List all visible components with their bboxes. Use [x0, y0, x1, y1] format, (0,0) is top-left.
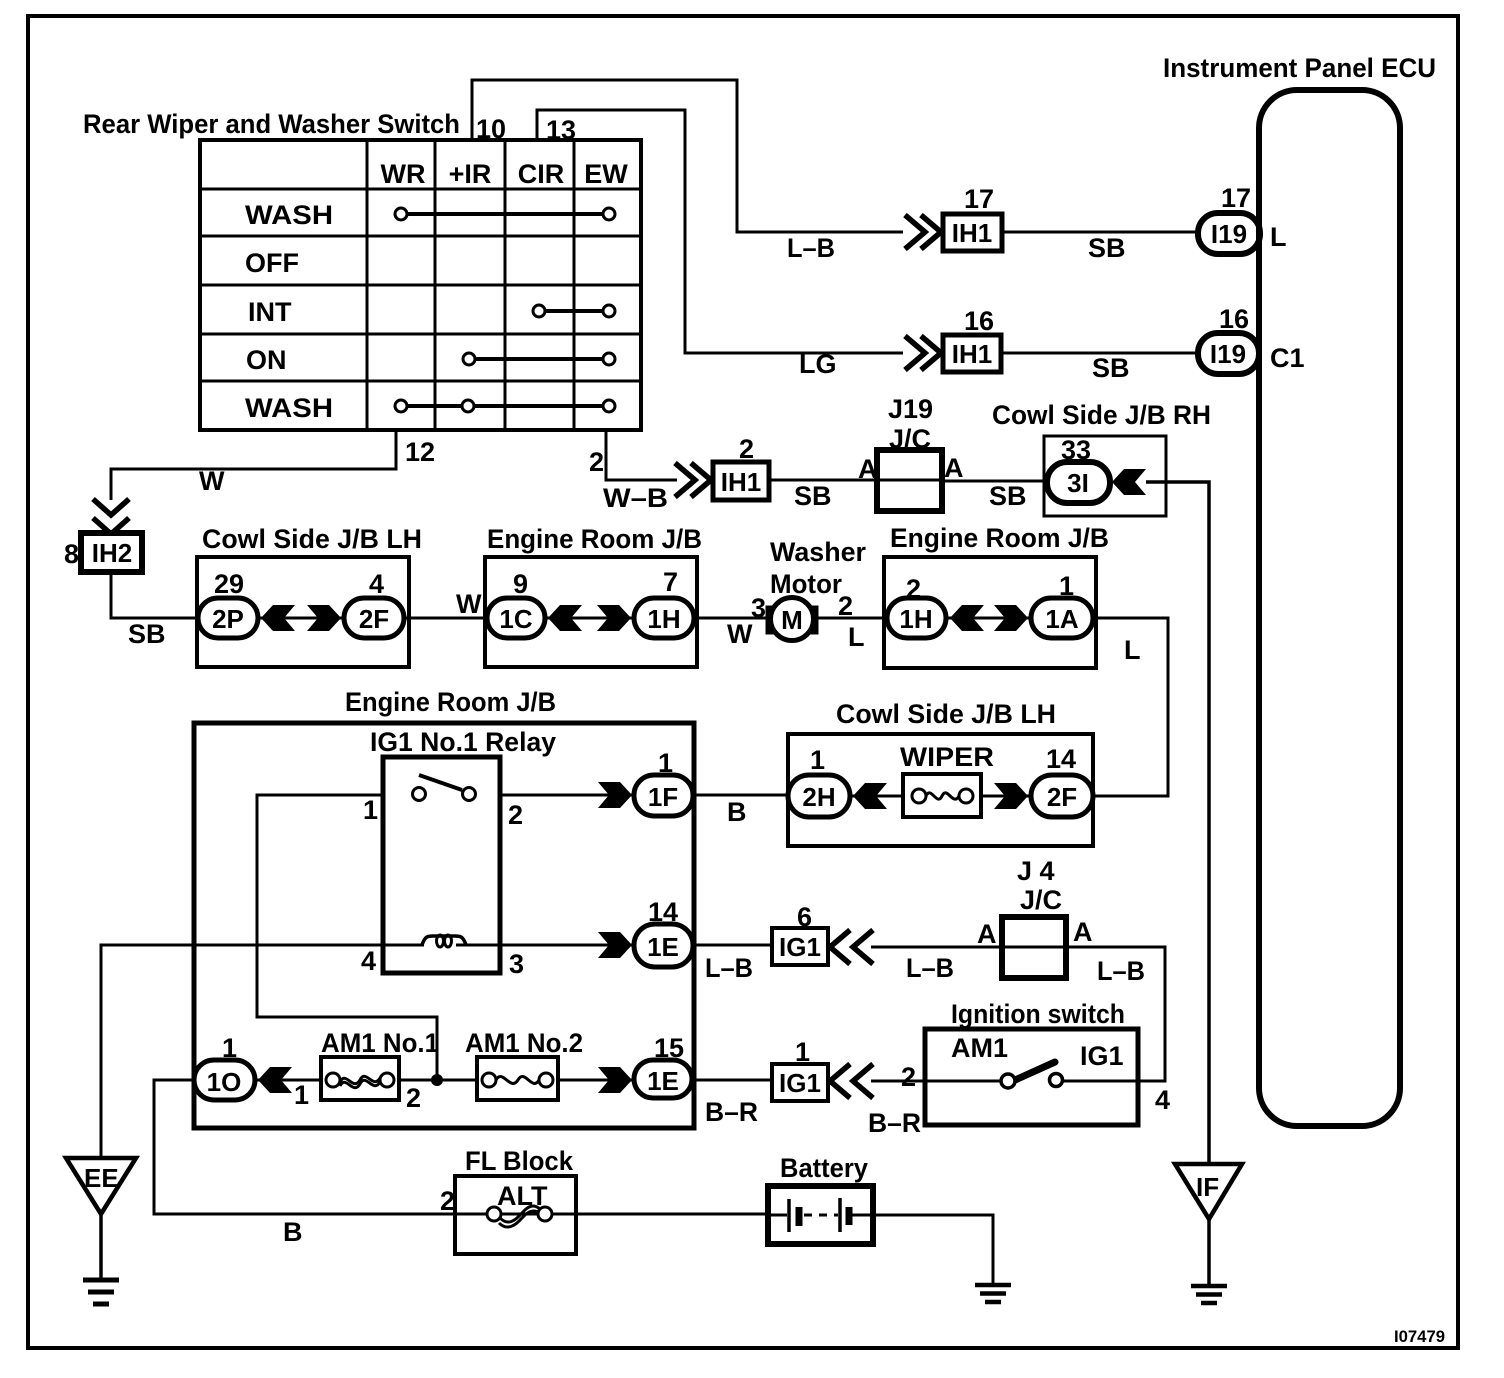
wire 1E14 to IG1(6): [693, 944, 772, 947]
wire 1E15 to IG1(1): [692, 1079, 772, 1082]
connector I19 pin17: [1198, 183, 1287, 254]
solid chevron at 3I: [1112, 469, 1146, 495]
wire 1C to 1H: [545, 617, 634, 620]
contact row WASH(top): [395, 208, 615, 220]
chevron at 2F(14): [994, 783, 1028, 809]
svg-text:2P: 2P: [212, 604, 244, 634]
wire fuse to 2F: [981, 795, 1031, 798]
svg-text:WASH: WASH: [245, 200, 333, 230]
wire 1O to fuse AM1 No.1: [255, 1079, 321, 1082]
wire 1H to washer motor: [694, 617, 766, 620]
svg-text:1E: 1E: [647, 1066, 679, 1096]
svg-text:J19: J19: [888, 394, 933, 424]
wire relay pin2 to 1F: [500, 794, 636, 797]
connector IH1 pin2: [713, 434, 769, 500]
open arrow before IH1(2): [675, 463, 711, 497]
relay switch contacts: [413, 775, 476, 801]
svg-text:FL Block: FL Block: [465, 1146, 574, 1176]
wire pin13 to IH1(16): [537, 110, 903, 353]
chevron at 1E(14): [598, 932, 632, 958]
connector 2P pin29: [198, 569, 258, 638]
wire IF to ground: [1207, 1219, 1211, 1285]
junction J4 J/C: [977, 856, 1093, 978]
svg-text:IG1 No.1 Relay: IG1 No.1 Relay: [370, 727, 556, 757]
svg-text:Cowl Side J/B LH: Cowl Side J/B LH: [836, 699, 1056, 729]
svg-text:L–B: L–B: [787, 233, 835, 263]
svg-text:ON: ON: [246, 345, 287, 375]
wire fuse2 to 1E(15): [558, 1079, 636, 1082]
junction dot: [431, 1074, 443, 1086]
connector IH2 pin8: [64, 533, 142, 572]
svg-text:CIR: CIR: [518, 159, 565, 189]
wire SB to I19(16): [1001, 352, 1198, 355]
wire through J4: [1002, 946, 1066, 949]
svg-text:Rear Wiper and Washer Switch: Rear Wiper and Washer Switch: [83, 109, 460, 139]
svg-text:IG1: IG1: [779, 932, 821, 962]
svg-text:1E: 1E: [647, 932, 679, 962]
svg-text:Engine Room J/B: Engine Room J/B: [345, 687, 556, 717]
battery BAT1: [768, 1186, 873, 1244]
svg-text:Engine Room J/B: Engine Room J/B: [890, 523, 1109, 553]
svg-text:WIPER: WIPER: [900, 742, 994, 772]
svg-text:2F: 2F: [1047, 782, 1077, 812]
svg-text:Cowl Side J/B RH: Cowl Side J/B RH: [992, 400, 1211, 430]
svg-text:Cowl Side J/B LH: Cowl Side J/B LH: [202, 524, 422, 554]
svg-text:B–R: B–R: [705, 1097, 758, 1127]
connector 1H pin2: [887, 574, 946, 638]
wire IG1(6) to J4: [871, 946, 1002, 949]
svg-text:4: 4: [1155, 1085, 1170, 1115]
svg-text:SB: SB: [1092, 353, 1130, 383]
svg-text:1A: 1A: [1045, 604, 1078, 634]
svg-text:3I: 3I: [1067, 468, 1089, 498]
svg-text:W: W: [199, 466, 225, 496]
ignition switch contacts SW1: [1001, 1062, 1063, 1088]
svg-text:16: 16: [1219, 304, 1249, 334]
chevron at 1O: [258, 1067, 292, 1093]
connector 1H pin7: [634, 567, 694, 638]
svg-text:L–B: L–B: [906, 953, 954, 983]
chevron at 1E(15): [598, 1067, 632, 1093]
Cowl Side J/B LH box (2nd): [788, 734, 1093, 846]
svg-text:4: 4: [361, 946, 376, 976]
wire battery to ground: [873, 1215, 993, 1284]
svg-text:B: B: [283, 1217, 303, 1247]
chevrons between 2P and 2F: [261, 605, 295, 631]
svg-text:IG1: IG1: [1080, 1041, 1124, 1071]
connector 1C pin9: [487, 569, 545, 638]
connector 2F pin14: [1031, 744, 1093, 817]
svg-text:A: A: [944, 453, 964, 483]
svg-text:2: 2: [508, 800, 523, 830]
wire 2F to 1C: [404, 617, 487, 620]
svg-text:W–B: W–B: [603, 483, 668, 513]
connector 1A pin1: [1031, 571, 1093, 638]
svg-text:7: 7: [663, 567, 678, 597]
Cowl Side J/B RH box: [1044, 436, 1166, 516]
svg-text:1F: 1F: [648, 782, 678, 812]
wire SB J19 to 3I: [942, 480, 1047, 483]
connector 1E pin15: [634, 1033, 692, 1098]
svg-text:AM1 No.1: AM1 No.1: [321, 1028, 439, 1058]
connector 1F pin1: [634, 748, 693, 816]
svg-text:16: 16: [964, 306, 994, 336]
svg-text:W: W: [727, 619, 753, 649]
connector IH1 pin16: [943, 306, 1001, 372]
svg-text:OFF: OFF: [245, 248, 299, 278]
wire FL block to battery: [576, 1213, 768, 1216]
Instrument Panel ECU body: [1259, 90, 1400, 1126]
fuse AM1 No.1: [321, 1057, 399, 1100]
svg-text:EW: EW: [584, 159, 628, 189]
svg-text:2: 2: [589, 447, 604, 477]
down arrows to IH2: [93, 499, 129, 534]
svg-text:ALT: ALT: [497, 1181, 548, 1211]
svg-text:Battery: Battery: [780, 1153, 868, 1183]
wire SB to I19(17): [1002, 231, 1198, 234]
svg-text:IF: IF: [1196, 1172, 1219, 1202]
wire through J19: [877, 479, 942, 482]
svg-text:J 4: J 4: [1017, 856, 1055, 886]
svg-text:IH2: IH2: [92, 538, 132, 568]
svg-text:SB: SB: [128, 619, 166, 649]
svg-text:IG1: IG1: [779, 1068, 821, 1098]
svg-text:B: B: [727, 797, 747, 827]
svg-text:1H: 1H: [899, 604, 932, 634]
svg-text:2: 2: [440, 1186, 455, 1216]
svg-text:1H: 1H: [647, 604, 680, 634]
wire pin12 to IH2: [111, 430, 396, 500]
open arrow after IG1(1): [830, 1064, 873, 1098]
open arrow after IG1(6): [830, 930, 873, 964]
wire J4 to ignition switch pin4: [1063, 947, 1165, 1081]
chevrons between 1C and 1H: [548, 605, 582, 631]
svg-text:2: 2: [406, 1083, 421, 1113]
wire EE to ground: [99, 1214, 103, 1281]
connector I19 pin16: [1198, 304, 1305, 374]
wire IG1(1) to ignition switch: [871, 1080, 1002, 1083]
svg-text:L–B: L–B: [705, 953, 753, 983]
svg-text:SB: SB: [1088, 233, 1126, 263]
fuse WIPER: [903, 774, 981, 817]
ground at battery: [975, 1285, 1011, 1302]
svg-text:A: A: [858, 454, 878, 484]
wire fuse1 to fuse2: [399, 1079, 477, 1082]
wire 1F to 2H: [693, 794, 788, 797]
connector 1E pin14: [634, 897, 693, 967]
svg-text:12: 12: [405, 437, 435, 467]
svg-text:M: M: [781, 605, 803, 635]
chevron at 2H: [853, 783, 887, 809]
Engine Room J/B big box: [194, 723, 694, 1128]
svg-text:A: A: [977, 919, 997, 949]
connector IG1 pin6: [772, 902, 828, 965]
svg-text:L: L: [1124, 635, 1141, 665]
svg-text:L: L: [848, 622, 865, 652]
svg-text:WR: WR: [381, 159, 426, 189]
junction J19 J/C: [858, 394, 964, 511]
contact row WASH(bottom): [395, 400, 615, 412]
ground IF triangle: [1175, 1164, 1242, 1219]
relay coil: [422, 936, 466, 945]
svg-text:1: 1: [363, 795, 378, 825]
svg-text:C1: C1: [1270, 343, 1305, 373]
wire coil to 1E(14): [456, 944, 636, 947]
ground at IF: [1191, 1286, 1227, 1303]
svg-text:10: 10: [476, 114, 506, 144]
connector IG1 pin1: [772, 1037, 828, 1101]
svg-text:3: 3: [509, 949, 524, 979]
chevrons between 1H and 1A: [950, 605, 984, 631]
svg-text:1O: 1O: [207, 1067, 242, 1097]
svg-text:Engine Room J/B: Engine Room J/B: [487, 524, 702, 554]
connector 1O pin1: [194, 1033, 255, 1100]
svg-text:A: A: [1073, 917, 1093, 947]
svg-text:4: 4: [369, 569, 384, 599]
wire EE riser to coil row: [101, 945, 424, 1158]
Cowl Side J/B LH box: [197, 557, 409, 667]
svg-text:17: 17: [964, 184, 994, 214]
open arrow before IH1(17): [905, 215, 941, 249]
Engine Room J/B box (2nd): [884, 557, 1096, 668]
wire relay pin1 to AM1 junction: [257, 795, 437, 1080]
chevron at 1F: [598, 782, 632, 808]
wire 1O to FL block: [154, 1080, 455, 1214]
svg-text:SB: SB: [794, 481, 832, 511]
connector IH1 pin17: [943, 184, 1002, 251]
ground EE triangle: [66, 1158, 136, 1214]
svg-text:2: 2: [901, 1062, 916, 1092]
connector 2F pin4: [344, 569, 404, 638]
contact row INT: [533, 305, 615, 317]
svg-text:I07479: I07479: [1394, 1327, 1445, 1346]
FL Block box with ALT fusible link: [455, 1176, 576, 1254]
svg-text:2H: 2H: [802, 782, 835, 812]
wire 1A to 2F(14): [1093, 618, 1168, 796]
svg-text:IH1: IH1: [952, 218, 992, 248]
svg-text:1: 1: [810, 745, 825, 775]
wire SB IH1 to J19: [769, 479, 877, 482]
svg-text:29: 29: [214, 569, 244, 599]
wire 2H to fuse: [850, 795, 903, 798]
svg-text:INT: INT: [248, 297, 292, 327]
svg-text:J/C: J/C: [1020, 885, 1062, 915]
svg-text:17: 17: [1221, 183, 1251, 213]
svg-text:L: L: [1270, 222, 1287, 252]
switch table grid: [200, 140, 641, 430]
svg-text:EE: EE: [84, 1163, 119, 1193]
wire IH2 to 2P: [111, 572, 198, 618]
Engine Room J/B box: [485, 557, 697, 667]
wire motor to 1H: [818, 617, 887, 620]
svg-text:L–B: L–B: [1097, 956, 1145, 986]
svg-text:Ignition switch: Ignition switch: [951, 999, 1125, 1029]
open arrow before IH1(16): [905, 336, 941, 370]
svg-text:I19: I19: [1211, 219, 1247, 249]
contact row ON: [463, 353, 615, 365]
connector 3I pin33: [1047, 435, 1110, 503]
svg-text:IH1: IH1: [721, 467, 761, 497]
wire pin10 to IH1(17): [472, 80, 903, 232]
wire pin2 to arrow: [606, 430, 677, 480]
svg-text:W: W: [456, 589, 482, 619]
svg-text:I19: I19: [1210, 339, 1246, 369]
svg-text:AM1 No.2: AM1 No.2: [465, 1028, 583, 1058]
svg-text:2F: 2F: [359, 604, 389, 634]
svg-text:13: 13: [546, 115, 576, 145]
connector 2H pin1: [788, 745, 850, 817]
svg-text:1: 1: [294, 1080, 309, 1110]
svg-text:Washer: Washer: [770, 537, 866, 567]
svg-text:AM1: AM1: [951, 1033, 1008, 1063]
svg-text:SB: SB: [989, 481, 1027, 511]
svg-text:Instrument Panel ECU: Instrument Panel ECU: [1163, 53, 1436, 83]
svg-text:IH1: IH1: [952, 339, 992, 369]
svg-text:1C: 1C: [499, 604, 532, 634]
relay box: [383, 757, 500, 973]
svg-text:9: 9: [513, 569, 528, 599]
svg-text:Motor: Motor: [770, 569, 842, 599]
ignition switch box: [925, 1029, 1138, 1125]
svg-text:B–R: B–R: [868, 1108, 921, 1138]
svg-text:14: 14: [1046, 744, 1076, 774]
washer motor M1: [768, 598, 816, 641]
svg-text:WASH: WASH: [245, 393, 333, 423]
wire 1H to 1A: [946, 617, 1031, 620]
ground at EE: [83, 1280, 119, 1304]
svg-text:3: 3: [751, 593, 766, 623]
svg-text:LG: LG: [799, 349, 837, 379]
table header labels: [381, 159, 629, 189]
wire 3I to vertical: [1146, 482, 1209, 1164]
svg-text:+IR: +IR: [449, 159, 492, 189]
wire 2P to 2F: [258, 617, 344, 620]
svg-text:8: 8: [64, 539, 79, 569]
fuse AM1 No.2: [477, 1057, 558, 1100]
